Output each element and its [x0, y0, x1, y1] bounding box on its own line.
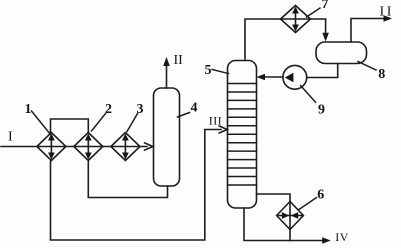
svg-text:I: I: [8, 130, 13, 145]
wire pump 9 reflux to column 5: [262, 76, 283, 78]
vessel 4: [154, 88, 180, 186]
wire vessel4 top vapour line: [166, 63, 168, 88]
arrow stream IV: [322, 237, 331, 244]
arrow stream III into column 5: [219, 126, 227, 133]
wire drum 8 bottom to pump 9: [307, 64, 338, 78]
pump 9: [283, 65, 307, 89]
wire exchanger 6 bottom to bottoms line: [289, 230, 291, 241]
heat exchanger 1: [37, 133, 66, 161]
column 5: [228, 61, 257, 209]
svg-text:II: II: [380, 5, 395, 20]
arrow stream II (top right): [384, 15, 393, 22]
pointer line to 9: [301, 86, 316, 103]
wire column overhead to exchanger 7: [245, 19, 281, 61]
heat exchanger 6: [277, 202, 304, 230]
wire exchanger 7 to drum 8: [311, 19, 326, 36]
svg-text:1: 1: [25, 102, 32, 117]
pointer line to 8: [358, 62, 376, 71]
pointer line to 1: [32, 111, 51, 135]
svg-text:5: 5: [205, 63, 212, 78]
wire exchanger2 bottom to vessel4 bottom: [88, 161, 167, 198]
pointer line to 5: [212, 70, 229, 74]
svg-text:4: 4: [191, 101, 198, 116]
arrow into vessel 4: [145, 143, 153, 150]
arrow reflux into column (points left): [257, 74, 266, 81]
column 5 tray lines: [228, 84, 257, 186]
svg-text:8: 8: [378, 67, 385, 82]
wire main feed line I: [1, 146, 147, 148]
heat exchanger 3: [111, 133, 140, 161]
svg-text:III: III: [209, 114, 222, 128]
pointer line to 6: [299, 198, 317, 210]
svg-text:7: 7: [322, 0, 329, 12]
arrow up stream II from vessel 4: [163, 57, 170, 66]
heat exchanger 2: [74, 133, 103, 161]
heat exchanger 7: [281, 6, 311, 33]
wire exchanger1 bottom long return line to column feed: [51, 130, 222, 241]
svg-text:2: 2: [105, 102, 112, 117]
wire drum 8 top to product II: [351, 19, 386, 43]
drum 8 (reflux accumulator): [316, 42, 367, 64]
arrow down into drum 8: [322, 33, 329, 42]
pointer line to 2: [92, 114, 106, 132]
svg-text:6: 6: [317, 188, 324, 203]
wire column 5 bottoms to stream IV: [244, 208, 325, 241]
pointer line to 7: [307, 8, 321, 17]
wire column side draw to exchanger 6: [257, 194, 291, 202]
svg-text:II: II: [174, 53, 184, 68]
svg-text:9: 9: [318, 103, 325, 118]
wire loop over exchangers 1-2: [51, 119, 89, 133]
pointer line to 3: [127, 114, 138, 132]
pointer line to 4: [178, 113, 190, 118]
svg-text:IV: IV: [335, 230, 349, 244]
